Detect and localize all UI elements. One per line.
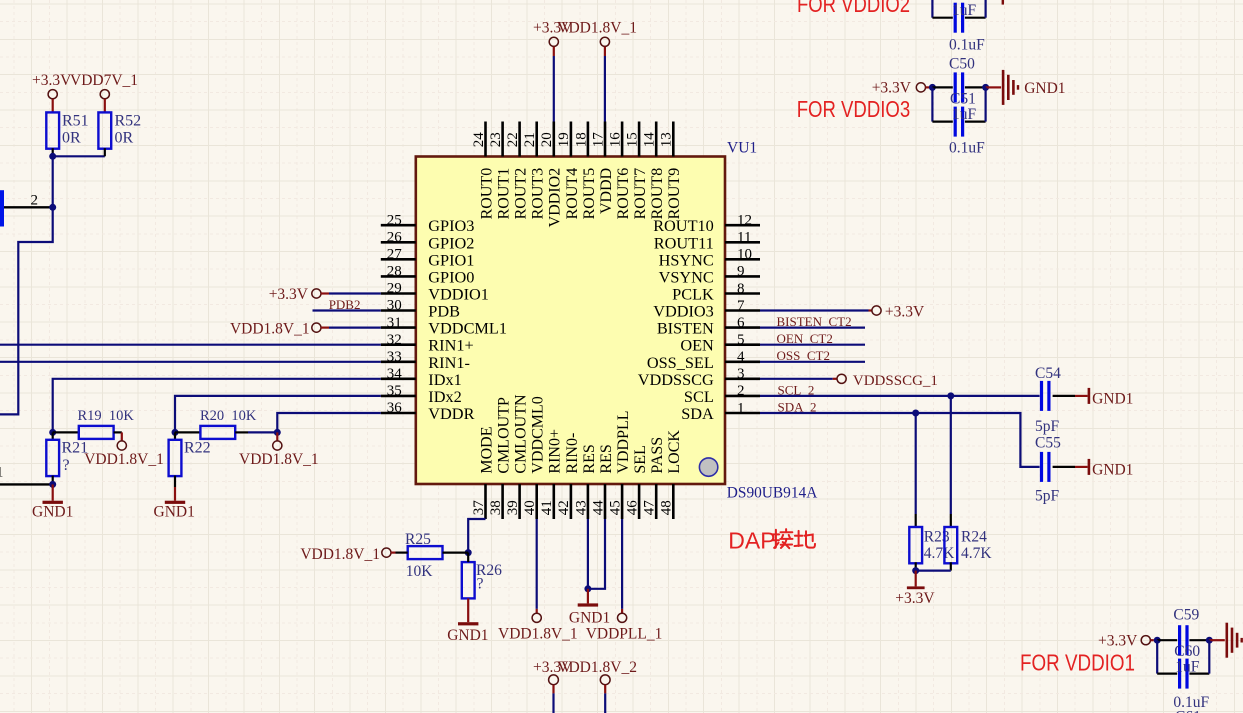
svg-text:CMLOUTP: CMLOUTP xyxy=(496,397,513,474)
svg-text:46: 46 xyxy=(625,500,641,516)
svg-text:R24: R24 xyxy=(961,529,987,546)
svg-text:36: 36 xyxy=(387,400,403,416)
svg-text:30: 30 xyxy=(387,298,402,314)
pin 11 (ROUT11) right xyxy=(654,230,760,253)
junction C59 right xyxy=(1206,637,1213,644)
wire pin 37 MODE to junction xyxy=(468,519,485,553)
pin 48 (LOCK) bottom xyxy=(659,430,684,519)
svg-text:12: 12 xyxy=(737,213,752,229)
power port +3.3V (top, to pin 20 VDDIO2) xyxy=(533,20,573,56)
svg-text:+3.3V: +3.3V xyxy=(872,80,912,97)
svg-text:VDD1.8V_1: VDD1.8V_1 xyxy=(239,451,319,468)
svg-text:45: 45 xyxy=(608,500,624,515)
pin 28 (GPIO0) left xyxy=(381,264,475,287)
svg-text:ROUT0: ROUT0 xyxy=(478,168,495,220)
IC VU1 body (DS90UB914A serializer) xyxy=(416,157,725,485)
svg-text:GND1: GND1 xyxy=(1092,462,1133,479)
power port VDD1.8V_2 (bottom) xyxy=(557,659,637,693)
svg-text:RIN0+: RIN0+ xyxy=(547,429,564,474)
svg-text:OSS CT2: OSS CT2 xyxy=(777,348,830,363)
svg-text:SDA: SDA xyxy=(681,404,714,423)
svg-text:21: 21 xyxy=(522,132,538,147)
resistor R51 xyxy=(46,112,88,148)
net label OEN_CT2 xyxy=(777,331,833,346)
svg-text:C59: C59 xyxy=(1173,606,1199,623)
junction VDDR/R20 xyxy=(274,429,281,436)
resistor R22 xyxy=(169,432,211,476)
svg-text:VDD1.8V_1: VDD1.8V_1 xyxy=(498,626,578,643)
capacitor 0.1uF label (VDDIO2) xyxy=(949,37,985,54)
wire junction to R19 xyxy=(53,431,79,433)
junction C59 left xyxy=(1154,637,1161,644)
power port +3.3V (top-left) xyxy=(32,72,72,113)
svg-text:FOR VDDIO3: FOR VDDIO3 xyxy=(797,96,911,122)
svg-text:18: 18 xyxy=(573,132,589,147)
wire IDx1 (pin 34) to junction xyxy=(53,379,381,433)
pin 45 (VDDPLL) bottom xyxy=(608,410,633,519)
wire junction to R20 xyxy=(175,431,200,433)
capacitor C51 1uF (loop) xyxy=(932,87,985,136)
pin 31 (VDDCML1) left xyxy=(381,315,507,338)
power port VDDSSCG_1 xyxy=(837,373,938,389)
ground GND1 (C54) xyxy=(1075,388,1133,408)
wire pin 44 RES down-left xyxy=(588,519,605,589)
junction R25/R26 xyxy=(465,549,472,556)
ground GND1 (below R26) xyxy=(447,598,488,644)
pin 3 (VDDSSCG) right xyxy=(638,366,760,389)
pin 1 (SDA) right xyxy=(681,400,760,423)
svg-text:+3.3V: +3.3V xyxy=(1098,632,1138,649)
junction SCL/R24 xyxy=(947,392,954,399)
pin 32 (RIN1+) left xyxy=(381,332,474,355)
svg-text:R22: R22 xyxy=(184,440,211,457)
svg-text:PASS: PASS xyxy=(649,437,666,474)
svg-text:R19 10K: R19 10K xyxy=(78,408,135,424)
svg-text:35: 35 xyxy=(387,383,402,399)
power port +3.3V (below R23/R24) xyxy=(895,571,935,608)
ground GND1 (below pins 43/44) xyxy=(569,589,610,627)
junction R21/R19 xyxy=(49,429,56,436)
svg-text:VDD1.8V_1: VDD1.8V_1 xyxy=(230,321,310,338)
svg-text:ROUT8: ROUT8 xyxy=(649,168,666,220)
svg-text:SEL: SEL xyxy=(632,445,649,473)
svg-text:ROUT4: ROUT4 xyxy=(564,168,581,220)
svg-text:RIN0-: RIN0- xyxy=(564,433,581,474)
resistor R20 10K xyxy=(200,408,257,439)
power port +3.3V (pin 29 VDDIO1) xyxy=(269,286,329,303)
IC pin-1 indicator circle xyxy=(699,458,717,476)
svg-text:VDD7V_1: VDD7V_1 xyxy=(70,72,138,89)
junction R22/R20 xyxy=(172,429,179,436)
svg-text:R25: R25 xyxy=(405,531,431,548)
wire VDDR (pin 36) down xyxy=(277,413,381,432)
wire SCL junction down to R24 xyxy=(950,396,952,527)
power port VDD1.8V_1 (pin 31 VDDCML1) xyxy=(230,321,329,338)
svg-text:7: 7 xyxy=(737,298,745,314)
wire RIN1+ (pin 32) to left edge xyxy=(0,344,381,346)
ground GND1 (C59, cut at right) xyxy=(1209,623,1243,658)
svg-text:4.7K: 4.7K xyxy=(961,545,992,562)
pin 44 (RES) bottom xyxy=(590,444,615,519)
svg-text:VDDCML0: VDDCML0 xyxy=(530,396,547,473)
svg-text:24: 24 xyxy=(471,132,487,148)
svg-text:47: 47 xyxy=(642,500,658,516)
ground GND1 (below R21) xyxy=(32,484,73,520)
svg-text:5pF: 5pF xyxy=(1035,488,1060,505)
ground stub (VDDIO2, cut) xyxy=(1002,0,1004,5)
annotation DAP ground (red, DAP + chinese jiedi strokes) xyxy=(728,527,815,553)
svg-text:PDB2: PDB2 xyxy=(329,297,361,312)
ground GND1 (below R22) xyxy=(154,476,195,521)
annotation FOR VDDIO1 xyxy=(1020,649,1135,675)
net label SDA_2 xyxy=(778,399,817,414)
wire R21 bottom to junction xyxy=(52,476,54,485)
svg-text:C54: C54 xyxy=(1035,365,1061,382)
pin 36 (VDDR) left xyxy=(381,400,475,423)
svg-text:VDD1.8V_1: VDD1.8V_1 xyxy=(300,546,380,563)
svg-text:ROUT2: ROUT2 xyxy=(513,168,530,220)
wire VDD1.8V_1 to pin 17 xyxy=(604,56,606,122)
svg-text:RES: RES xyxy=(581,444,598,473)
svg-text:17: 17 xyxy=(590,132,606,148)
svg-text:ROUT1: ROUT1 xyxy=(496,168,513,220)
pin 5 (OEN) right xyxy=(680,332,760,355)
pin 8 (PCLK) right xyxy=(672,281,760,304)
power port +3.3V (bottom) xyxy=(533,659,573,693)
svg-text:VDDD: VDDD xyxy=(598,168,615,214)
pin 34 (IDx1) left xyxy=(381,366,462,389)
pin 38 (CMLOUTP) bottom xyxy=(488,397,513,519)
svg-text:27: 27 xyxy=(387,247,403,263)
wire C55 to ground xyxy=(1053,466,1075,468)
pin 41 (RIN0+) bottom xyxy=(539,429,564,519)
svg-text:VDDR: VDDR xyxy=(428,404,474,423)
svg-text:GND1: GND1 xyxy=(1024,80,1065,97)
svg-text:39: 39 xyxy=(505,500,521,515)
junction R21 bottom / connector pin 1 xyxy=(49,481,56,488)
wire R24 bottom to junction xyxy=(916,562,951,570)
resistor R19 10K xyxy=(78,408,135,439)
pin 35 (IDx2) left xyxy=(381,383,462,406)
ground GND1 (C55) xyxy=(1075,459,1133,479)
power port VDD1.8V_1 (top, to pin 17 VDDD) xyxy=(557,20,637,56)
svg-text:6: 6 xyxy=(737,315,745,331)
pin 23 (ROUT1) top xyxy=(488,122,513,220)
svg-text:+3.3V: +3.3V xyxy=(895,590,935,607)
capacitor 0.1uF label (C60) xyxy=(1173,694,1209,711)
IC designator VU1 xyxy=(727,140,757,157)
resistor R25 10K xyxy=(405,531,443,580)
svg-text:ROUT6: ROUT6 xyxy=(615,168,632,220)
svg-text:41: 41 xyxy=(539,500,555,515)
wire pin 40 VDDCML0 down xyxy=(536,519,538,613)
wire junction to R26 xyxy=(467,553,469,563)
svg-text:C50: C50 xyxy=(949,56,975,73)
wire R19 to VDD1.8V_1 port xyxy=(114,432,122,441)
svg-text:22: 22 xyxy=(505,132,521,147)
svg-text:10: 10 xyxy=(737,247,752,263)
pin 21 (ROUT3) top xyxy=(522,122,547,220)
svg-text:?: ? xyxy=(477,575,484,592)
svg-text:23: 23 xyxy=(488,132,504,147)
svg-text:ROUT5: ROUT5 xyxy=(581,168,598,220)
svg-text:?: ? xyxy=(63,457,70,474)
connector pin 1 xyxy=(0,464,53,484)
pin 29 (VDDIO1) left xyxy=(381,281,489,304)
svg-text:+3.3V: +3.3V xyxy=(885,304,925,321)
pin 17 (VDDD) top xyxy=(590,122,615,215)
pin 26 (GPIO2) left xyxy=(381,230,475,253)
svg-text:29: 29 xyxy=(387,281,402,297)
svg-text:4: 4 xyxy=(737,349,745,365)
wire IDx2 (pin 35) to junction xyxy=(175,396,381,433)
svg-text:1uF: 1uF xyxy=(952,106,977,123)
net label PDB2 and wire to pin 30 xyxy=(313,297,381,312)
wire VDD1.8V_2 bottom down xyxy=(604,693,606,713)
wire pin 45 VDDPLL down xyxy=(621,519,623,613)
wire R23 bottom xyxy=(915,562,917,570)
svg-text:RES: RES xyxy=(598,444,615,473)
pin 6 (BISTEN) right xyxy=(657,315,760,338)
svg-text:4.7K: 4.7K xyxy=(924,545,955,562)
svg-text:13: 13 xyxy=(659,132,675,147)
pin 10 (HSYNC) right xyxy=(659,247,760,270)
svg-text:ROUT3: ROUT3 xyxy=(530,168,547,220)
pin 9 (VSYNC) right xyxy=(659,264,760,287)
svg-text:VDDSSCG_1: VDDSSCG_1 xyxy=(853,373,938,389)
svg-text:VDD1.8V_1: VDD1.8V_1 xyxy=(84,451,164,468)
wire junction down to connector pin 2 node xyxy=(52,156,54,207)
junction VDDIO3 left xyxy=(929,84,936,91)
wire +3.3V to pin 20 xyxy=(553,56,555,122)
svg-text:VDD1.8V_1: VDD1.8V_1 xyxy=(557,20,637,37)
svg-text:VDDPLL: VDDPLL xyxy=(615,410,632,473)
svg-text:26: 26 xyxy=(387,230,403,246)
wire pin 43 RES down xyxy=(587,519,589,589)
svg-text:GND1: GND1 xyxy=(569,610,610,627)
svg-text:GND1: GND1 xyxy=(154,504,195,521)
svg-text:DS90UB914A: DS90UB914A xyxy=(727,484,818,501)
svg-text:11: 11 xyxy=(737,230,751,246)
pin 27 (GPIO1) left xyxy=(381,247,475,270)
junction SDA/R23 xyxy=(912,410,919,417)
svg-text:GND1: GND1 xyxy=(32,504,73,521)
svg-text:0.1uF: 0.1uF xyxy=(949,140,985,157)
wire node down-left to edge xyxy=(0,207,53,414)
wire +3.3V bottom down xyxy=(552,693,554,713)
power port VDD1.8V_1 (below pin 40) xyxy=(498,613,578,642)
pin 4 (OSS_SEL) right xyxy=(647,349,760,372)
svg-text:19: 19 xyxy=(556,132,572,147)
partial designator below (cut) xyxy=(1175,709,1201,713)
svg-text:1: 1 xyxy=(737,400,745,416)
svg-text:20: 20 xyxy=(539,132,555,147)
power port +3.3V (pin 7) xyxy=(872,304,925,321)
svg-text:GND1: GND1 xyxy=(447,627,488,644)
svg-text:2: 2 xyxy=(737,383,745,399)
svg-text:0R: 0R xyxy=(115,129,134,146)
connector body edge (left) xyxy=(0,190,4,226)
net label BISTEN_CT2 xyxy=(777,314,852,329)
capacitor 1uF (VDDIO2 loop, cut at top) xyxy=(932,0,985,33)
svg-text:+3.3V: +3.3V xyxy=(32,72,72,89)
pin 39 (CMLOUTN) bottom xyxy=(505,394,530,519)
pin 30 (PDB) left xyxy=(381,298,460,321)
svg-text:42: 42 xyxy=(556,500,572,515)
resistor R23 4.7K xyxy=(909,527,955,563)
capacitor C59 xyxy=(1157,606,1209,655)
svg-text:R51: R51 xyxy=(62,113,89,130)
power port VDD1.8V_1 (right of R19) xyxy=(84,441,164,468)
pin 16 (ROUT6) top xyxy=(608,122,633,220)
pin 18 (ROUT5) top xyxy=(573,122,598,220)
svg-text:3: 3 xyxy=(737,366,745,382)
svg-text:38: 38 xyxy=(488,500,504,515)
wire pin 3 VDDSSCG to port xyxy=(760,378,837,380)
capacitor C60 1uF (loop) xyxy=(1157,640,1209,688)
pin 20 (VDDIO2) top xyxy=(539,122,564,228)
wire +3.3V to pin 29 xyxy=(329,292,381,294)
capacitor C55 5pF xyxy=(1035,435,1061,505)
svg-text:C61: C61 xyxy=(1175,709,1201,713)
svg-text:ROUT7: ROUT7 xyxy=(632,168,649,220)
resistor R21 xyxy=(46,432,88,476)
resistor R24 4.7K xyxy=(944,527,992,563)
pin 43 (RES) bottom xyxy=(573,444,598,519)
pin 42 (RIN0-) bottom xyxy=(556,433,581,519)
svg-text:32: 32 xyxy=(387,332,402,348)
wire SDA junction down to R23 xyxy=(915,413,917,527)
pin 14 (ROUT8) top xyxy=(642,122,667,220)
pin 37 (MODE) bottom xyxy=(471,426,496,519)
svg-text:8: 8 xyxy=(737,281,745,297)
pin 13 (ROUT9) top xyxy=(659,122,684,220)
svg-text:14: 14 xyxy=(642,132,658,148)
svg-text:15: 15 xyxy=(625,132,641,147)
junction pins 43/44 xyxy=(584,585,591,592)
svg-text:GND1: GND1 xyxy=(1092,391,1133,408)
wire R25 to junction xyxy=(443,551,469,553)
IC part number DS90UB914A xyxy=(727,484,818,501)
junction VDDIO3 right xyxy=(982,84,989,91)
capacitor C54 5pF xyxy=(1035,365,1061,435)
svg-text:OEN CT2: OEN CT2 xyxy=(777,331,833,346)
svg-text:VDDIO2: VDDIO2 xyxy=(547,168,564,228)
pin 40 (VDDCML0) bottom xyxy=(522,396,547,519)
svg-text:44: 44 xyxy=(590,500,606,516)
svg-text:40: 40 xyxy=(522,500,538,515)
wire pin 5 OEN xyxy=(760,344,865,346)
svg-text:33: 33 xyxy=(387,349,402,365)
svg-text:31: 31 xyxy=(387,315,402,331)
pin 7 (VDDIO3) right xyxy=(653,298,760,321)
power port +3.3V (C59) xyxy=(1098,632,1154,649)
svg-text:BISTEN CT2: BISTEN CT2 xyxy=(777,314,852,329)
junction R23/R24 bottoms xyxy=(912,567,919,574)
svg-text:1uF: 1uF xyxy=(1175,658,1200,675)
svg-text:37: 37 xyxy=(471,500,487,516)
pin 19 (ROUT4) top xyxy=(556,122,581,220)
wire pin 1 SDA to C55 xyxy=(760,413,1040,467)
pin 25 (GPIO3) left xyxy=(381,212,475,235)
svg-text:DAP: DAP xyxy=(728,527,775,553)
pin 12 (ROUT10) right xyxy=(653,213,760,236)
svg-text:34: 34 xyxy=(387,366,403,382)
svg-text:0.1uF: 0.1uF xyxy=(949,37,985,54)
svg-text:CMLOUTN: CMLOUTN xyxy=(513,394,530,474)
svg-text:0R: 0R xyxy=(62,129,81,146)
svg-text:9: 9 xyxy=(737,264,745,280)
svg-text:VDD1.8V_2: VDD1.8V_2 xyxy=(557,659,637,676)
connector pin 2 xyxy=(4,192,53,208)
capacitor 0.1uF label (VDDIO3) xyxy=(949,140,985,157)
svg-text:1uF: 1uF xyxy=(952,2,977,19)
svg-text:25: 25 xyxy=(387,212,402,228)
svg-text:5pF: 5pF xyxy=(1035,418,1060,435)
resistor R26 xyxy=(462,562,502,598)
power port VDD1.8V_1 (left of R25) xyxy=(300,546,407,563)
svg-text:1: 1 xyxy=(0,464,3,480)
junction at connector pin 2 xyxy=(49,204,56,211)
svg-text:R21: R21 xyxy=(62,440,89,457)
pin 15 (ROUT7) top xyxy=(625,122,650,220)
svg-text:48: 48 xyxy=(659,500,675,515)
wire pin 2 SCL to C54 xyxy=(760,395,1040,397)
net label OSS_CT2 xyxy=(777,348,830,363)
wire R51 bottom to junction xyxy=(52,148,54,156)
annotation FOR VDDIO2 xyxy=(797,0,910,17)
svg-text:VDDPLL_1: VDDPLL_1 xyxy=(586,626,663,643)
wire VDD1.8V_1 to pin 31 xyxy=(329,327,381,329)
svg-text:28: 28 xyxy=(387,264,402,280)
pin 2 (SCL) right xyxy=(684,383,760,406)
annotation FOR VDDIO3 xyxy=(797,96,911,122)
svg-text:VU1: VU1 xyxy=(727,140,757,157)
svg-text:FOR VDDIO1: FOR VDDIO1 xyxy=(1020,649,1135,675)
capacitor C50 0.1uF xyxy=(932,56,985,103)
wire pin 4 OSS_SEL xyxy=(760,361,865,363)
svg-text:16: 16 xyxy=(608,132,624,148)
svg-text:5: 5 xyxy=(737,332,745,348)
wire pin 6 BISTEN xyxy=(760,327,865,329)
resistor R52 xyxy=(98,112,141,148)
net label SCL_2 xyxy=(778,382,815,397)
svg-text:FOR VDDIO2: FOR VDDIO2 xyxy=(797,0,910,17)
svg-text:MODE: MODE xyxy=(478,426,495,473)
wire junction to R52 bottom xyxy=(53,148,105,156)
pin 22 (ROUT2) top xyxy=(505,122,530,220)
pin 46 (SEL) bottom xyxy=(625,445,650,519)
power port VDD7V_1 (top-left) xyxy=(70,72,138,113)
power port VDDPLL_1 (below pin 45) xyxy=(586,613,663,642)
pin 47 (PASS) bottom xyxy=(642,437,667,519)
pin 24 (ROUT0) top xyxy=(471,122,496,220)
ground GND1 (VDDIO3) xyxy=(986,70,1066,105)
svg-text:ROUT9: ROUT9 xyxy=(666,168,683,220)
wire R20 to VDDR junction xyxy=(235,431,277,433)
power port VDD1.8V_1 (below VDDR) xyxy=(239,432,319,468)
power port +3.3V (VDDIO3) xyxy=(872,80,930,97)
wire C54 to ground xyxy=(1053,395,1075,397)
svg-text:C55: C55 xyxy=(1035,435,1061,452)
pin 33 (RIN1-) left xyxy=(381,349,470,372)
svg-text:R23: R23 xyxy=(924,529,950,546)
svg-text:R20 10K: R20 10K xyxy=(200,408,257,424)
svg-text:43: 43 xyxy=(573,500,589,515)
svg-text:LOCK: LOCK xyxy=(666,430,683,474)
junction R51/R52 xyxy=(49,153,56,160)
wire RIN1- (pin 33) to left edge xyxy=(0,361,381,363)
